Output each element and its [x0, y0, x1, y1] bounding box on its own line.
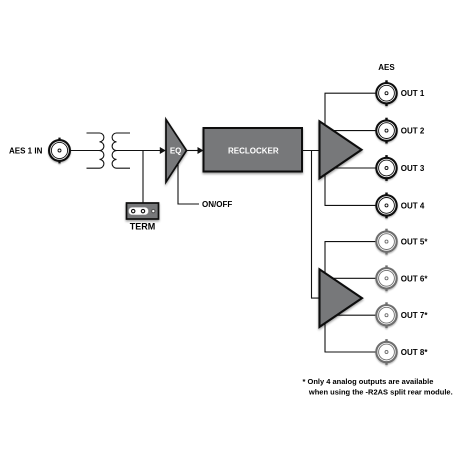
svg-text:OUT 4: OUT 4 [401, 201, 425, 210]
wire OUT6 [325, 277, 377, 279]
BNC connector OUT4 [376, 193, 396, 219]
svg-text:OUT 8*: OUT 8* [401, 348, 429, 357]
termination switch TERM [127, 203, 159, 219]
transformer T1 secondary winding [112, 133, 130, 168]
wire EQ to reclocker [187, 150, 199, 152]
svg-text:TERM: TERM [130, 222, 156, 232]
BNC connector OUT5 [376, 229, 396, 255]
wire junction down to TERM [142, 151, 144, 204]
wire OUT4 [325, 204, 377, 206]
arrow into reclocker [198, 147, 204, 154]
svg-text:AES 1 IN: AES 1 IN [9, 146, 43, 155]
BNC connector J1 (AES 1 IN) [49, 138, 70, 164]
wire OUT8 [325, 351, 377, 353]
wire OUT1 [325, 92, 377, 94]
transformer T1 primary winding [87, 133, 104, 168]
svg-text:* Only 4 analog outputs are av: * Only 4 analog outputs are available [303, 377, 434, 386]
svg-text:OUT 2: OUT 2 [401, 127, 425, 136]
svg-text:AES: AES [378, 63, 395, 72]
BNC connector OUT8 [376, 339, 396, 365]
wire input BNC to transformer [71, 150, 100, 152]
bus lower fan-out vertical [324, 242, 326, 352]
wire transformer to EQ [117, 150, 161, 152]
wire reclocker output [302, 150, 320, 152]
svg-text:when using the -R2AS split rea: when using the -R2AS split rear module. [308, 388, 453, 397]
wire OUT7 [325, 314, 377, 316]
block RECLOCKER U2 [204, 128, 303, 172]
wire OUT5 [325, 241, 377, 243]
BNC connector OUT1 [376, 80, 396, 106]
svg-text:OUT 5*: OUT 5* [401, 238, 429, 247]
svg-text:OUT 3: OUT 3 [401, 164, 425, 173]
wire branch to lower amp [312, 151, 320, 299]
svg-text:OUT 7*: OUT 7* [401, 311, 429, 320]
BNC connector OUT3 [376, 155, 396, 181]
svg-text:EQ: EQ [170, 147, 182, 156]
wire OUT2 [325, 130, 377, 132]
arrow into EQ [160, 147, 166, 154]
svg-text:OUT 6*: OUT 6* [401, 274, 429, 283]
amplifier EQ U1 [166, 120, 187, 183]
wire OUT3 [325, 167, 377, 169]
BNC connector OUT6 [376, 265, 396, 291]
BNC connector OUT7 [376, 302, 396, 328]
BNC connector OUT2 [376, 118, 396, 144]
svg-text:OUT 1: OUT 1 [401, 89, 425, 98]
svg-text:ON/OFF: ON/OFF [202, 200, 232, 209]
wire EQ on/off control [178, 164, 199, 204]
buffer amplifier U3 (upper) [320, 121, 362, 178]
bus upper fan-out vertical [324, 93, 326, 205]
svg-text:RECLOCKER: RECLOCKER [228, 146, 279, 155]
buffer amplifier U4 (lower) [320, 269, 363, 327]
